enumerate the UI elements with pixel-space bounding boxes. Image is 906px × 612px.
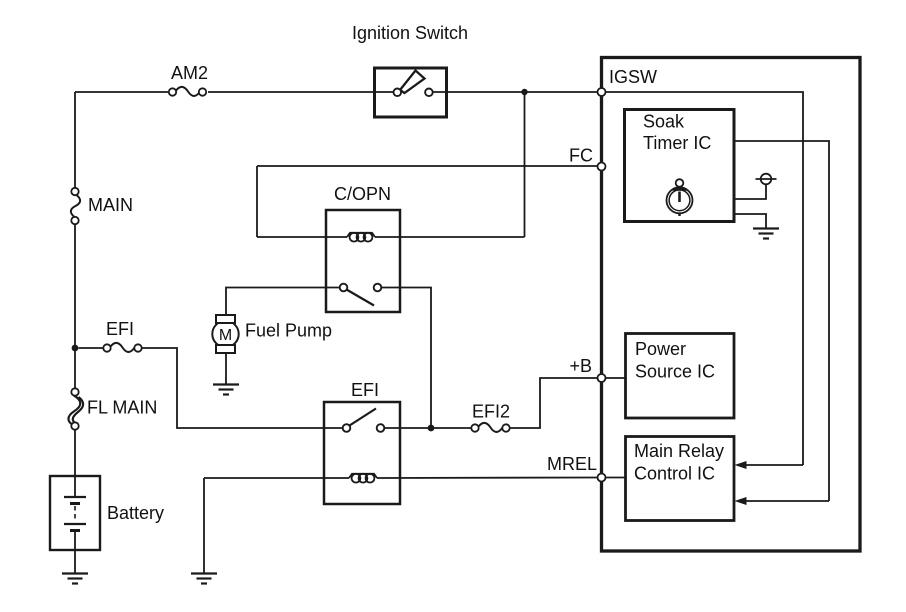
battery xyxy=(50,476,100,550)
fusible link FL MAIN xyxy=(68,388,83,429)
wire MREL pin to Main Relay Control IC xyxy=(605,477,625,479)
svg-text:Timer IC: Timer IC xyxy=(643,133,711,153)
switch of relay C/OPN xyxy=(340,284,382,306)
svg-text:Battery: Battery xyxy=(107,503,164,523)
node FC pin xyxy=(598,163,606,171)
wire EFI2 fuse to +B pin xyxy=(510,378,598,428)
IC Soak Timer box xyxy=(625,110,735,222)
IC Main Relay Control box xyxy=(626,437,735,521)
svg-text:Source IC: Source IC xyxy=(635,362,715,382)
junction dot after ignition switch xyxy=(521,89,527,95)
ground for soak timer xyxy=(753,229,779,239)
wire junction down to C/OPN coil xyxy=(524,92,526,237)
fuse EFI xyxy=(103,343,141,352)
power terminal symbol (circle with bar) xyxy=(756,174,777,185)
wire FC line xyxy=(257,165,597,167)
ground below EFI coil wire xyxy=(191,574,217,584)
fuse EFI2 xyxy=(471,423,509,432)
switch of relay EFI xyxy=(343,409,385,432)
wire C/OPN coil line xyxy=(257,236,347,238)
timer icon (stopwatch) xyxy=(667,179,693,216)
wire left vertical middle (MAIN fuse to EFI junction to FL MAIN) xyxy=(74,224,76,389)
coil of relay C/OPN xyxy=(347,233,375,242)
svg-text:Main Relay: Main Relay xyxy=(634,441,724,461)
wire ignition switch to ECU IGSW pin xyxy=(433,91,597,93)
arrow into Main Relay Control IC from IGSW line xyxy=(735,461,804,469)
wire IGSW pin to right vertical xyxy=(605,92,803,465)
wire soak timer power stub xyxy=(734,185,766,200)
relay EFI box xyxy=(324,402,400,504)
wire C/OPN switch right down to EFI relay xyxy=(381,288,431,429)
svg-text:EFI: EFI xyxy=(106,319,134,339)
ground below fuel pump xyxy=(213,385,239,395)
arrow into Main Relay Control IC from Soak Timer xyxy=(735,497,830,505)
svg-text:Ignition Switch: Ignition Switch xyxy=(352,23,468,43)
fuse MAIN xyxy=(71,188,80,224)
junction dot EFI switch / C OPN feed xyxy=(428,425,435,432)
svg-text:MAIN: MAIN xyxy=(88,195,133,215)
wire top horizontal from left corner to AM2 fuse xyxy=(75,91,168,93)
wire EFI coil left leg to ground xyxy=(203,478,205,573)
svg-text:EFI: EFI xyxy=(351,380,379,400)
fuse AM2 xyxy=(169,87,206,96)
svg-text:Soak: Soak xyxy=(643,112,685,132)
svg-text:+B: +B xyxy=(569,356,592,376)
svg-text:MREL: MREL xyxy=(547,454,597,474)
svg-text:FC: FC xyxy=(569,146,593,166)
node +B pin xyxy=(598,374,606,382)
svg-text:M: M xyxy=(219,327,232,344)
wire +B pin to Power Source IC xyxy=(605,377,625,379)
wire fuel pump to ground xyxy=(225,353,227,384)
ground below battery xyxy=(62,574,88,584)
wire Soak Timer IC to right vertical xyxy=(734,141,829,501)
wire EFI fuse branch to EFI relay xyxy=(79,347,104,349)
wire EFI switch right to EFI2 fuse xyxy=(384,427,471,429)
junction dot at EFI branch xyxy=(72,345,79,352)
wire EFI coil line to MREL pin xyxy=(204,477,349,479)
svg-text:Control IC: Control IC xyxy=(634,464,715,484)
node IGSW pin xyxy=(598,88,606,96)
svg-text:IGSW: IGSW xyxy=(609,67,657,87)
IC Power Source box xyxy=(626,334,735,419)
wire soak timer ground stub xyxy=(734,214,766,228)
switch Ignition Switch xyxy=(375,68,447,117)
svg-text:Power: Power xyxy=(635,339,686,359)
coil of relay EFI xyxy=(349,474,377,483)
motor M Fuel Pump xyxy=(212,315,238,353)
svg-text:FL MAIN: FL MAIN xyxy=(87,398,157,418)
wire FL MAIN to battery xyxy=(74,430,76,477)
svg-text:AM2: AM2 xyxy=(171,63,208,83)
wire C/OPN coil left leg up to FC line xyxy=(256,166,258,237)
svg-text:C/OPN: C/OPN xyxy=(334,184,391,204)
wire AM2 fuse to ignition switch xyxy=(208,91,393,93)
wire battery to ground xyxy=(74,550,76,573)
ECU box xyxy=(602,58,861,552)
svg-text:Fuel Pump: Fuel Pump xyxy=(245,321,332,341)
wire C/OPN switch left to fuel pump xyxy=(226,288,340,316)
node MREL pin xyxy=(598,474,606,482)
wire left vertical upper (corner to MAIN fuse) xyxy=(74,92,76,188)
svg-text:EFI2: EFI2 xyxy=(472,402,510,422)
relay C/OPN box xyxy=(326,210,400,312)
